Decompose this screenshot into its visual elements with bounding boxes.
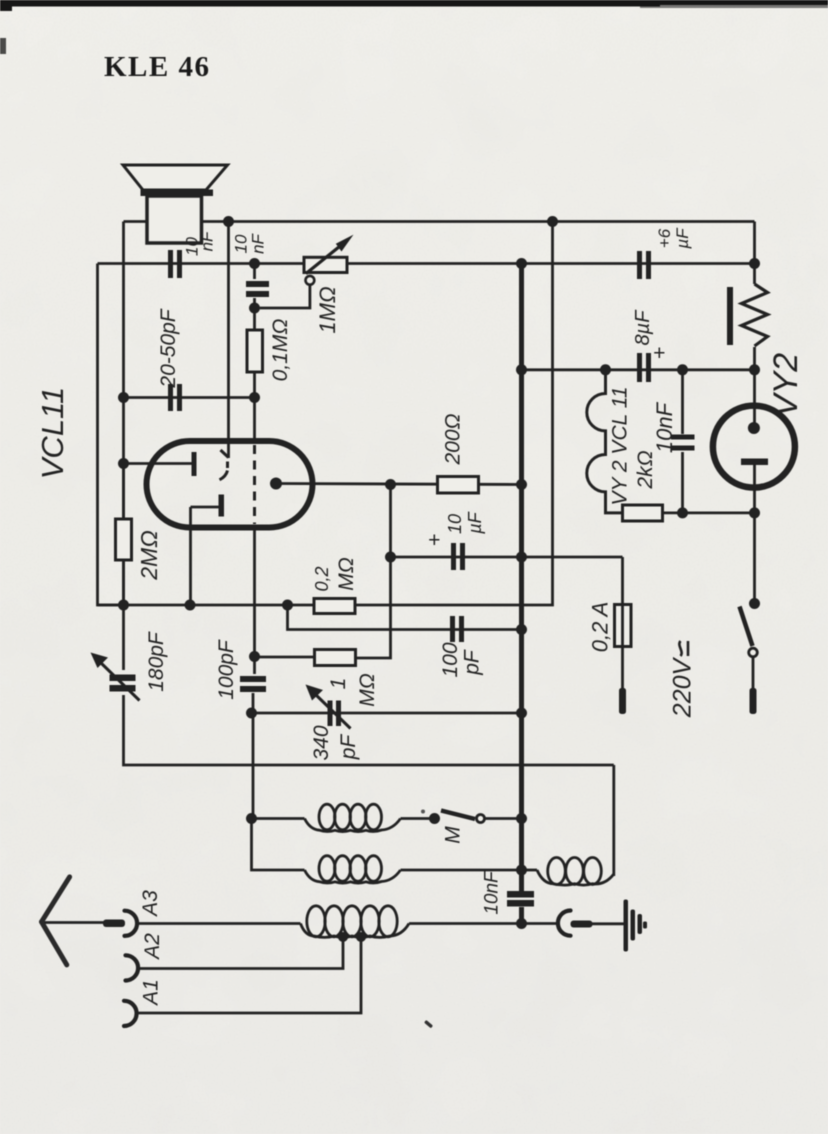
wire HT line y=369.8 bbox=[522, 368, 755, 371]
trimmer 180pF plates bbox=[110, 675, 136, 692]
wire grid lead x=228.5 from top bus into tube bbox=[227, 222, 230, 459]
mains pin left bbox=[619, 688, 626, 714]
wire left rail x=97.5 down to lower bus bbox=[98, 264, 124, 606]
node 10uF / bus bbox=[516, 552, 527, 563]
svg-text:1: 1 bbox=[327, 678, 350, 690]
scan mark left edge bbox=[0, 38, 6, 54]
node heater bottom / 10nF bbox=[677, 507, 688, 518]
node 340pF / bus bbox=[516, 708, 527, 719]
wire coil3 exit to ground bus bbox=[409, 922, 557, 925]
node lower bus / 0.2M jog bbox=[282, 600, 293, 611]
capacitor 20-50pF plates bbox=[171, 384, 180, 411]
tube VCL11 pentode anode bbox=[219, 495, 225, 517]
svg-text:A3: A3 bbox=[139, 890, 162, 918]
wire VY2 cathode lead bbox=[753, 465, 756, 513]
mains switch lever bbox=[740, 607, 753, 647]
capacitor 10uF plates bbox=[454, 543, 463, 570]
node top bus / grid bbox=[223, 216, 234, 227]
node second bus / HT bus top bbox=[516, 258, 527, 269]
svg-text:100pF: 100pF bbox=[215, 639, 238, 700]
earth jack bbox=[558, 911, 571, 936]
thick HT bus x=521.5 bbox=[519, 264, 524, 892]
capacitor 100pF (left) plates bbox=[240, 676, 266, 692]
node heater bottom / rail bbox=[749, 507, 760, 518]
node 100pF right / bus bbox=[516, 624, 527, 635]
resistor 2k bbox=[623, 505, 663, 521]
ground symbol bbox=[624, 900, 648, 952]
wire fuse feed x=622.5 bbox=[621, 557, 624, 605]
tube VCL11 envelope bbox=[147, 441, 313, 528]
wire A2 tap bbox=[137, 937, 343, 969]
capacitor 100pF (right) plates bbox=[453, 616, 462, 642]
svg-text:+: + bbox=[653, 342, 665, 365]
node 10uF left bbox=[385, 552, 396, 563]
antenna symbol bbox=[42, 877, 70, 965]
trimmer 340pF plates bbox=[330, 701, 339, 727]
trimmer 340pF arrow bbox=[306, 685, 351, 729]
wire antenna line y=923.5 bbox=[42, 921, 104, 924]
node 10nF2 / pot wiper bbox=[249, 303, 260, 314]
svg-text:nF: nF bbox=[198, 230, 217, 251]
tube VY2 anode dot bbox=[748, 422, 760, 434]
wire 1M lead y=657 bbox=[255, 656, 315, 659]
node coil2 coil4 / bus bbox=[516, 865, 527, 876]
node HT line / right rail bbox=[749, 364, 760, 375]
wire second bus y=263.5 bbox=[98, 262, 755, 265]
speck bottom middle bbox=[424, 1020, 433, 1028]
coil L3 (antenna) bbox=[301, 906, 410, 938]
resistor 0.1M bbox=[247, 330, 263, 372]
node switch top bbox=[749, 598, 760, 609]
wire 0.1M resistor to 20-50pF node bbox=[253, 372, 256, 441]
svg-text:20-50pF: 20-50pF bbox=[157, 308, 180, 388]
node triode anode lead bbox=[118, 458, 129, 469]
node second bus / 10nF2 bbox=[249, 258, 260, 269]
heater chain VY2 VCL11 loops bbox=[587, 370, 623, 513]
svg-text:MΩ: MΩ bbox=[335, 557, 358, 590]
svg-text:VY2: VY2 bbox=[767, 353, 805, 417]
potentiometer 1M bbox=[260, 235, 354, 308]
node 20-50pF right bbox=[249, 392, 260, 403]
wire 2M resistor leads bbox=[122, 464, 125, 520]
wire tube partition lower lead x=254.5 bbox=[253, 527, 256, 674]
coil L2 bbox=[305, 856, 401, 883]
svg-text:220V: 220V bbox=[669, 656, 697, 718]
node 200 ohm / bus bbox=[516, 479, 527, 490]
svg-text:200Ω: 200Ω bbox=[442, 413, 465, 465]
coil L1 bbox=[305, 804, 401, 831]
scan bar top bbox=[0, 0, 828, 11]
svg-text:10nF: 10nF bbox=[482, 870, 503, 915]
node 1M lead / x254 bbox=[249, 651, 260, 662]
svg-text:M: M bbox=[442, 826, 465, 844]
ballast resistor zigzag bbox=[742, 284, 768, 346]
capacitor 8uF plates bbox=[640, 353, 649, 382]
antenna plug bar bbox=[103, 920, 125, 928]
wire 10uF line y=557 bbox=[391, 556, 623, 559]
wire 180pF lower lead to long horizontal y=765 bbox=[124, 695, 614, 765]
wire lower bus y=605 bbox=[98, 222, 553, 606]
resistor 1M bbox=[315, 650, 356, 666]
svg-text:+: + bbox=[428, 529, 440, 552]
wire heater bottom y=512.9 bbox=[663, 512, 755, 515]
wire 10nF heater cap vertical x=682.5 bbox=[681, 370, 684, 434]
wire triode anode lead y=463.5 bbox=[124, 462, 194, 465]
jack A3 bbox=[125, 911, 138, 936]
node HT line / 10nF heater bbox=[677, 364, 688, 375]
tube VCL11 partition dashed bbox=[253, 445, 256, 524]
wire right loop x=613.8 coil4 bbox=[612, 765, 615, 876]
mains switch contact circle bbox=[749, 648, 758, 657]
svg-text:0,2: 0,2 bbox=[312, 566, 332, 591]
svg-text:1MΩ: 1MΩ bbox=[315, 286, 340, 333]
node 20-50pF left bbox=[118, 392, 129, 403]
node HT line / bus bbox=[516, 364, 527, 375]
wire earth lead bbox=[592, 922, 624, 925]
wire cathode line y=484.5 bbox=[276, 484, 522, 485]
wire switch to mains pin bbox=[752, 658, 755, 690]
wire VY2 anode lead bbox=[753, 404, 756, 424]
trimmer 180pF arrow bbox=[91, 653, 140, 701]
resistor 200 ohm bbox=[438, 477, 479, 494]
wire 20-50pF branch y=397.5 bbox=[124, 396, 255, 399]
svg-text:180pF: 180pF bbox=[145, 631, 168, 692]
svg-text:A2: A2 bbox=[141, 933, 164, 961]
wire 340pF line y=713 bbox=[255, 712, 522, 715]
wire coil4 entry y=870 bbox=[522, 869, 538, 872]
node ground line / bus bbox=[516, 918, 527, 929]
node second bus / right rail bbox=[749, 258, 760, 269]
tube VCL11 triode anode bbox=[192, 452, 197, 476]
wire left vertical x=123.5 speaker to 180pF to bottom bbox=[122, 222, 125, 671]
svg-text:0,2 A: 0,2 A bbox=[588, 602, 613, 653]
wire A1 tap bbox=[135, 937, 361, 1013]
node 340pF left bbox=[246, 708, 257, 719]
tube VY2 cathode bar bbox=[741, 459, 768, 466]
tube VCL11 pentode anode lead inside bbox=[191, 506, 219, 509]
resistor 2M bbox=[116, 519, 132, 560]
svg-text:10nF: 10nF bbox=[652, 401, 677, 453]
wire fuse to mains pin bbox=[621, 647, 624, 691]
svg-text:µF: µF bbox=[465, 511, 485, 534]
node M switch left bbox=[429, 813, 440, 824]
wire right rail x=754.5 bbox=[753, 222, 756, 285]
wire rail to switch bbox=[753, 513, 756, 600]
wire below 100pF cap down across y=765 to coil node bbox=[252, 693, 255, 819]
jack A1 bbox=[124, 1001, 137, 1026]
svg-text:2kΩ: 2kΩ bbox=[634, 450, 657, 489]
svg-text:pF: pF bbox=[461, 649, 484, 676]
node coil3 tap A2 bbox=[338, 932, 348, 942]
mains pin right bbox=[750, 688, 757, 714]
svg-text:KLE 46: KLE 46 bbox=[104, 51, 211, 83]
svg-text:100: 100 bbox=[439, 642, 462, 677]
AC mark bbox=[679, 641, 688, 656]
fuse 0.2A bbox=[615, 605, 632, 647]
coil L4 (output) bbox=[537, 858, 614, 886]
wire 10nF2 to 0.1M resistor bbox=[253, 298, 256, 330]
earth plug bar bbox=[571, 921, 593, 928]
node M switch / bus bbox=[516, 813, 527, 824]
svg-text:10: 10 bbox=[445, 514, 465, 534]
svg-text:VCL11: VCL11 bbox=[35, 387, 70, 480]
node top bus / x552 drop bbox=[547, 216, 558, 227]
capacitor 10nF (grid coupling) plates bbox=[246, 281, 269, 297]
svg-text:nF: nF bbox=[249, 232, 268, 253]
tube VCL11 cathode dot bbox=[270, 478, 282, 490]
capacitor 10nF (heater bypass) plates bbox=[671, 435, 695, 451]
svg-text:pF: pF bbox=[337, 734, 360, 761]
wire cathode vertical x=390.5 bbox=[315, 485, 391, 659]
switch M contact circle bbox=[477, 815, 485, 823]
jack A2 bbox=[126, 955, 139, 980]
wire coil1 line y=818.5 bbox=[252, 817, 305, 820]
node coil1 left bbox=[246, 813, 257, 824]
wire coil2 exit y=870 bbox=[401, 869, 522, 872]
wire pentode lead from tube bottom to lower bus bbox=[189, 507, 192, 605]
svg-text:+6: +6 bbox=[655, 228, 674, 248]
svg-text:340: 340 bbox=[310, 725, 333, 760]
svg-text:8µF: 8µF bbox=[632, 309, 654, 346]
capacitor 6uF plates bbox=[640, 251, 649, 279]
tube VCL11 grid dashes bbox=[220, 450, 229, 480]
svg-text:µF: µF bbox=[673, 227, 692, 250]
svg-text:VY 2 VCL 11: VY 2 VCL 11 bbox=[609, 386, 632, 505]
node cathode / 200 ohm bbox=[385, 479, 396, 490]
svg-text:MΩ: MΩ bbox=[356, 673, 379, 706]
svg-text:A1: A1 bbox=[140, 979, 163, 1007]
capacitor 10nF (earth) plates bbox=[507, 891, 534, 907]
tube VY2 envelope bbox=[713, 406, 795, 488]
switch M lever bbox=[441, 811, 475, 820]
svg-text:0,1MΩ: 0,1MΩ bbox=[269, 319, 292, 382]
wire coil1 to coil2 link x=251.5 bbox=[252, 819, 305, 871]
node lower bus / pentode lead bbox=[185, 600, 196, 611]
node lower bus / left vertical bbox=[118, 600, 129, 611]
node HT line / heater chain bbox=[600, 364, 611, 375]
wire x=254.5 from second bus down to tube top bbox=[253, 264, 256, 280]
wire top bus y=221.5 bbox=[124, 220, 755, 223]
node coil3 tap A1 bbox=[356, 932, 366, 942]
resistor 0.2M bbox=[314, 599, 355, 614]
svg-text:2MΩ: 2MΩ bbox=[136, 530, 162, 580]
ballast resistor bar bbox=[727, 287, 733, 345]
capacitor 10nF (speaker coupling) plates bbox=[171, 250, 180, 278]
thick HT bus lower stub bbox=[519, 907, 524, 924]
speaker LS bbox=[123, 165, 228, 243]
wire 0.2M jog to 100pF y=629.5 bbox=[288, 605, 522, 630]
speck near switch M bbox=[421, 810, 425, 814]
